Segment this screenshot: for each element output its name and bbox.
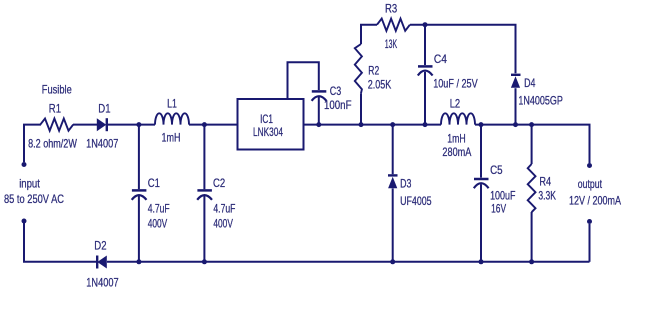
junction C1 top — [136, 122, 141, 127]
svg-text:1mH: 1mH — [447, 131, 466, 145]
svg-text:1N4005GP: 1N4005GP — [518, 93, 563, 107]
junction C4 top on R3 rail — [423, 22, 428, 27]
wire output bottom lead — [589, 224, 591, 262]
junction D4 bottom — [513, 122, 518, 127]
capacitor C1 — [132, 190, 147, 199]
junction C5 top — [479, 122, 484, 127]
svg-text:13K: 13K — [385, 37, 397, 51]
capacitor C3 — [312, 91, 327, 100]
svg-text:L2: L2 — [450, 96, 461, 110]
svg-text:R2: R2 — [368, 64, 379, 78]
junction D3 bottom — [390, 259, 395, 264]
svg-text:L1: L1 — [167, 97, 177, 111]
junction C2 top — [202, 122, 207, 127]
junction R2 bottom — [359, 122, 364, 127]
diode D1 — [97, 118, 107, 131]
capacitor C5 — [474, 179, 489, 188]
svg-text:IC1: IC1 — [260, 112, 273, 126]
inductor L2 — [441, 113, 475, 124]
svg-text:D1: D1 — [98, 101, 110, 115]
svg-text:10uF / 25V: 10uF / 25V — [433, 76, 478, 90]
wire C2 bottom lead — [203, 196, 205, 262]
svg-text:C1: C1 — [148, 176, 160, 190]
svg-text:D4: D4 — [524, 76, 536, 90]
wire D1 to L1 — [107, 124, 155, 126]
svg-text:LNK304: LNK304 — [253, 125, 283, 139]
junction C1 bottom — [136, 259, 141, 264]
IC1 box — [238, 99, 304, 150]
svg-text:85 to 250V AC: 85 to 250V AC — [4, 192, 64, 206]
svg-text:R3: R3 — [385, 2, 397, 16]
wire C1 bottom lead — [138, 196, 140, 262]
wire C4 bottom lead — [424, 72, 426, 125]
diode D2 — [97, 256, 107, 269]
svg-text:R1: R1 — [49, 101, 61, 115]
svg-text:Fusible: Fusible — [42, 82, 72, 96]
junction C2 bottom — [202, 259, 207, 264]
svg-text:C2: C2 — [213, 176, 225, 190]
wire L1 to IC1 — [189, 124, 238, 126]
svg-text:input: input — [19, 176, 40, 190]
svg-text:D3: D3 — [400, 176, 412, 190]
wire D3 top lead — [392, 125, 394, 175]
svg-text:D2: D2 — [94, 238, 106, 252]
svg-text:UF4005: UF4005 — [400, 194, 432, 208]
wire R1 to D1 — [73, 124, 97, 126]
junction R4 bottom — [529, 259, 534, 264]
wire R4 bottom lead — [531, 212, 533, 262]
svg-text:8.2 ohm/2W: 8.2 ohm/2W — [28, 137, 77, 151]
wire bottom rail right of D2 — [107, 261, 590, 263]
wire C5 top lead — [480, 125, 482, 178]
svg-text:2.05K: 2.05K — [368, 77, 392, 91]
svg-text:12V / 200mA: 12V / 200mA — [569, 193, 621, 207]
capacitor C4 — [418, 66, 433, 75]
junction R4 top — [529, 122, 534, 127]
svg-text:4.7uF: 4.7uF — [148, 202, 170, 216]
junction C3 bottom — [316, 122, 321, 127]
svg-text:280mA: 280mA — [442, 145, 471, 159]
wire bottom rail left of D2 — [24, 221, 96, 262]
wire R3 to D4 corner — [410, 25, 516, 74]
svg-text:output: output — [578, 177, 603, 191]
wire D4 to mid rail — [515, 88, 517, 124]
svg-text:C3: C3 — [330, 84, 342, 98]
svg-text:3.3K: 3.3K — [538, 188, 556, 202]
node output terminal bottom — [587, 219, 592, 224]
wire L2 to output corner — [475, 125, 590, 163]
svg-text:16V: 16V — [491, 201, 506, 215]
wire R4 top lead — [531, 125, 533, 164]
node output terminal top — [587, 163, 592, 168]
resistor R2 — [355, 44, 362, 93]
resistor R4 — [528, 164, 536, 212]
wire R2 top corner to R3 — [361, 25, 377, 125]
svg-text:400V: 400V — [148, 216, 168, 230]
wire C5 bottom lead — [480, 184, 482, 262]
capacitor C2 — [197, 190, 212, 199]
node input terminal top — [22, 162, 27, 167]
svg-text:R4: R4 — [539, 174, 551, 188]
wire C3 bottom lead — [318, 97, 320, 125]
node input terminal bottom — [22, 219, 27, 224]
resistor R1 — [40, 119, 73, 131]
resistor R3 — [377, 19, 410, 31]
svg-text:100nF: 100nF — [324, 98, 352, 112]
svg-text:400V: 400V — [213, 216, 233, 230]
diode D3 — [388, 175, 398, 188]
svg-text:C5: C5 — [490, 163, 503, 177]
wire C2 top lead — [203, 125, 205, 190]
svg-text:1mH: 1mH — [162, 131, 181, 145]
svg-text:1N4007: 1N4007 — [86, 137, 119, 151]
svg-text:C4: C4 — [434, 52, 447, 66]
svg-text:1N4007: 1N4007 — [86, 275, 119, 289]
junction C5 bottom — [479, 259, 484, 264]
capacitor C3 loop from IC1 top — [288, 62, 319, 99]
diode D4 — [511, 75, 521, 88]
wire IC1 right pin to L2 — [304, 124, 442, 126]
wire D3 bottom lead — [392, 189, 394, 262]
wire input top lead — [24, 125, 41, 162]
junction D3 top — [390, 122, 395, 127]
wire C4 top lead — [424, 25, 426, 65]
wire C1 top lead — [138, 125, 140, 190]
junction C4 bottom — [423, 122, 428, 127]
svg-text:4.7uF: 4.7uF — [213, 202, 235, 216]
inductor L1 — [155, 113, 189, 124]
